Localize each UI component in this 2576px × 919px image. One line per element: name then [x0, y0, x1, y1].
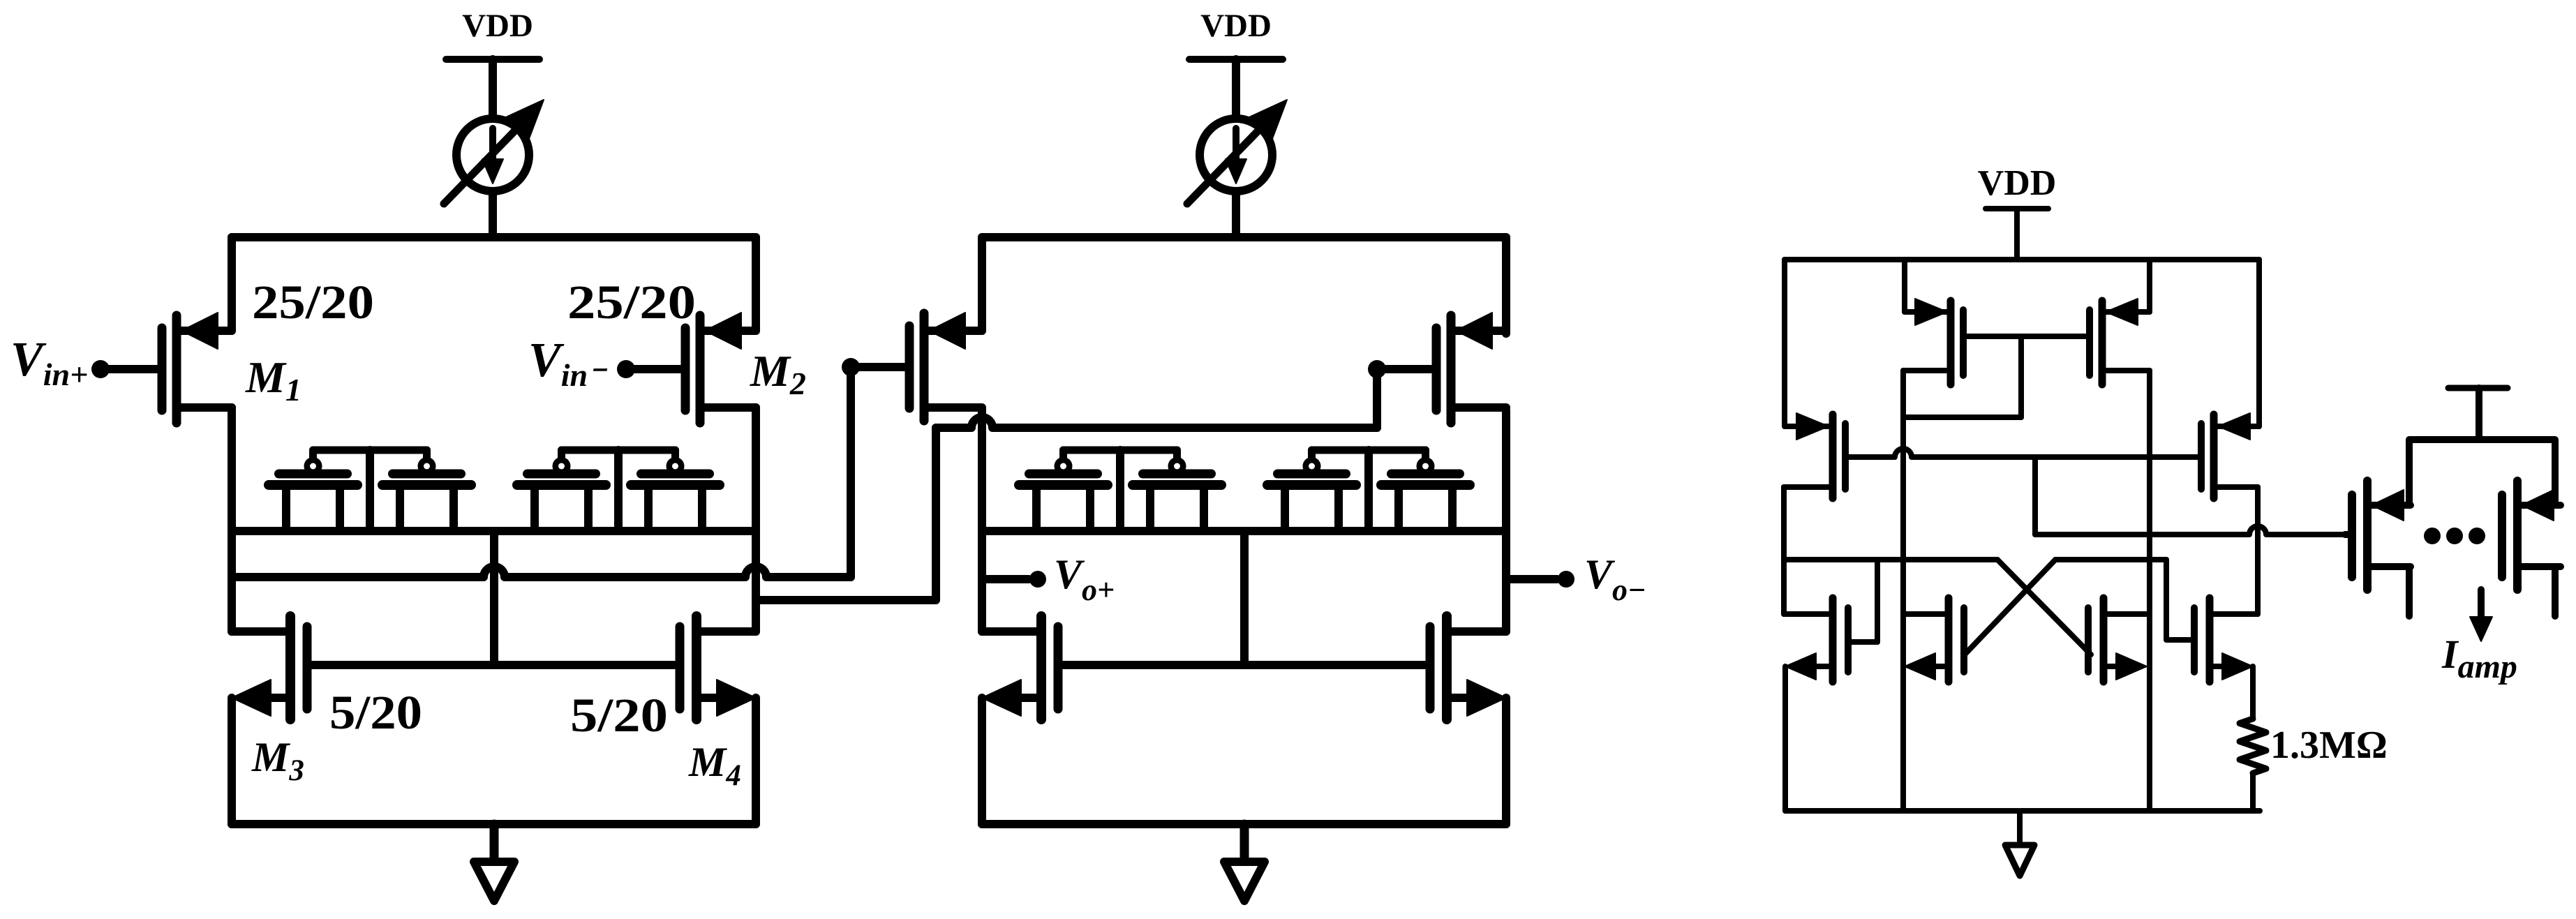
svg-text:5/20: 5/20: [329, 686, 422, 739]
svg-text:VDD: VDD: [1200, 8, 1272, 44]
svg-text:1.3MΩ: 1.3MΩ: [2270, 724, 2388, 767]
svg-text:25/20: 25/20: [252, 276, 374, 329]
svg-text:VDD: VDD: [1978, 163, 2057, 203]
svg-text:25/20: 25/20: [567, 276, 696, 329]
svg-text:5/20: 5/20: [570, 689, 668, 742]
svg-text:VDD: VDD: [462, 8, 533, 44]
